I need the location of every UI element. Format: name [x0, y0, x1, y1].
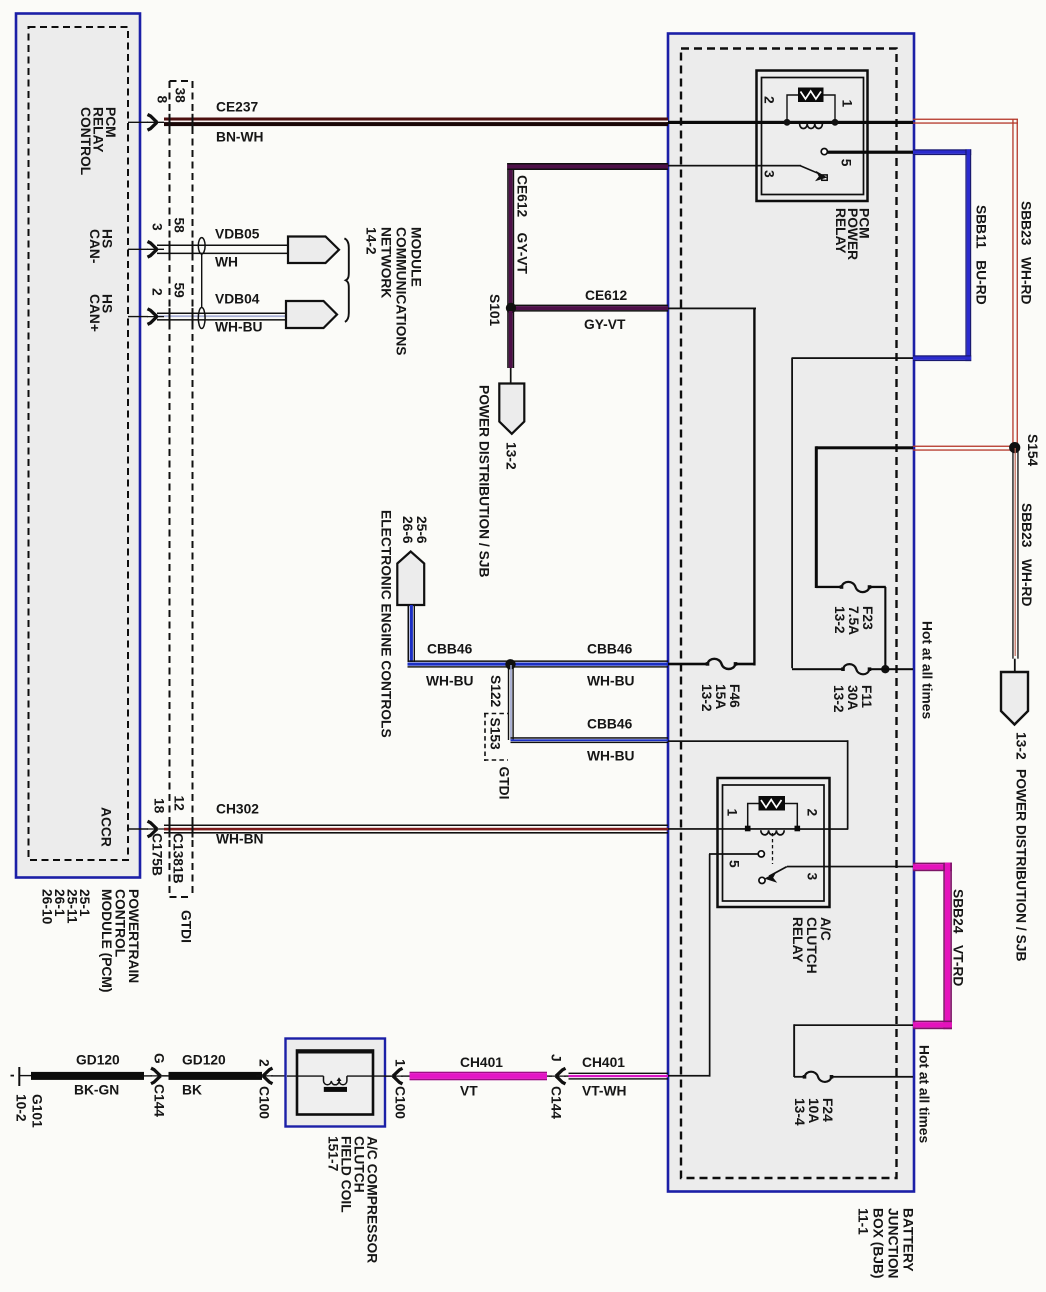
svg-text:ELECTRONIC ENGINE CONTROLS: ELECTRONIC ENGINE CONTROLS — [379, 510, 394, 738]
svg-text:VDB05: VDB05 — [215, 227, 260, 242]
svg-text:25-6: 25-6 — [414, 516, 429, 544]
svg-text:SBB23 WH-RD: SBB23 WH-RD — [1019, 503, 1034, 607]
svg-text:151-7: 151-7 — [326, 1136, 341, 1172]
svg-text:8: 8 — [155, 96, 170, 104]
svg-text:30A: 30A — [845, 685, 860, 710]
svg-text:VDB04: VDB04 — [215, 292, 260, 307]
svg-text:10-2: 10-2 — [14, 1094, 29, 1122]
svg-text:C144: C144 — [152, 1084, 167, 1117]
svg-text:3: 3 — [150, 223, 165, 231]
svg-text:CE612: CE612 — [585, 288, 628, 303]
svg-text:G101: G101 — [30, 1094, 45, 1128]
svg-text:BATTERY: BATTERY — [901, 1208, 916, 1272]
svg-text:C144: C144 — [549, 1086, 564, 1119]
svg-text:A/C: A/C — [818, 917, 833, 941]
svg-text:WH-BU: WH-BU — [426, 674, 474, 689]
svg-text:CONTROL: CONTROL — [78, 107, 93, 175]
svg-text:GD120: GD120 — [76, 1053, 120, 1068]
svg-text:C1381B: C1381B — [171, 833, 186, 884]
svg-text:C100: C100 — [257, 1086, 272, 1119]
svg-text:14-2: 14-2 — [364, 227, 379, 255]
svg-text:BN-WH: BN-WH — [216, 130, 264, 145]
svg-text:S101: S101 — [487, 294, 502, 327]
svg-text:10A: 10A — [806, 1098, 821, 1123]
svg-text:38: 38 — [173, 88, 188, 104]
svg-text:26-6: 26-6 — [400, 516, 415, 544]
svg-text:SBB23 WH-RD: SBB23 WH-RD — [1019, 201, 1034, 305]
svg-text:COMMUNICATIONS: COMMUNICATIONS — [394, 227, 409, 356]
svg-text:WH-BN: WH-BN — [216, 832, 264, 847]
svg-text:1: 1 — [393, 1059, 408, 1067]
svg-text:CH302: CH302 — [216, 802, 259, 817]
svg-text:SBB24 VT-RD: SBB24 VT-RD — [951, 889, 966, 986]
svg-text:15A: 15A — [713, 684, 728, 709]
svg-text:ACCR: ACCR — [99, 807, 114, 847]
svg-text:CE612 GY-VT: CE612 GY-VT — [515, 175, 530, 274]
svg-text:26-10: 26-10 — [40, 889, 55, 925]
svg-text:WH-BU: WH-BU — [587, 749, 635, 764]
svg-text:Hot at all times: Hot at all times — [917, 1045, 932, 1143]
svg-text:2: 2 — [150, 288, 165, 296]
svg-text:C100: C100 — [393, 1086, 408, 1119]
svg-text:CAN+: CAN+ — [87, 294, 102, 332]
svg-text:CBB46: CBB46 — [587, 642, 633, 657]
svg-text:1: 1 — [725, 809, 740, 817]
svg-text:GTDI: GTDI — [179, 910, 194, 943]
svg-text:GD120: GD120 — [182, 1053, 226, 1068]
svg-text:GTDI: GTDI — [497, 767, 512, 800]
svg-text:13-2: 13-2 — [699, 684, 714, 712]
svg-text:F24: F24 — [820, 1098, 835, 1122]
svg-text:2: 2 — [805, 809, 820, 817]
svg-text:5: 5 — [839, 159, 854, 167]
svg-text:BK-GN: BK-GN — [74, 1083, 119, 1098]
svg-text:13-2: 13-2 — [504, 442, 519, 470]
svg-text:3: 3 — [805, 873, 820, 881]
svg-text:S153: S153 — [488, 718, 503, 751]
svg-text:BK: BK — [182, 1083, 202, 1098]
svg-text:CBB46: CBB46 — [427, 642, 473, 657]
svg-text:Hot at all times: Hot at all times — [920, 621, 935, 719]
svg-text:C175B: C175B — [150, 833, 165, 876]
svg-text:CBB46: CBB46 — [587, 717, 633, 732]
svg-text:VT: VT — [460, 1084, 478, 1099]
svg-text:CAN-: CAN- — [87, 229, 102, 264]
svg-text:WH-BU: WH-BU — [215, 320, 263, 335]
svg-text:CLUTCH: CLUTCH — [804, 917, 819, 974]
svg-text:13-4: 13-4 — [792, 1098, 807, 1126]
svg-text:WH: WH — [215, 255, 238, 270]
svg-text:F11: F11 — [859, 685, 874, 708]
svg-text:7.5A: 7.5A — [846, 606, 861, 635]
svg-text:59: 59 — [172, 283, 187, 299]
svg-text:G: G — [152, 1053, 167, 1064]
svg-text:1: 1 — [840, 100, 855, 108]
svg-text:NETWORK: NETWORK — [379, 227, 394, 298]
svg-text:RELAY: RELAY — [790, 917, 805, 963]
svg-text:CH401: CH401 — [460, 1055, 503, 1070]
svg-text:SBB11 BU-RD: SBB11 BU-RD — [974, 205, 989, 305]
svg-text:S122: S122 — [488, 675, 503, 708]
svg-text:CH401: CH401 — [582, 1055, 625, 1070]
svg-text:13-2: 13-2 — [1014, 732, 1029, 760]
svg-text:WH-BU: WH-BU — [587, 674, 635, 689]
svg-text:RELAY: RELAY — [833, 208, 848, 254]
svg-text:CE237: CE237 — [216, 100, 259, 115]
svg-text:MODULE: MODULE — [409, 227, 424, 287]
svg-text:J: J — [549, 1054, 564, 1062]
svg-text:5: 5 — [727, 860, 742, 868]
svg-text:POWER DISTRIBUTION / SJB: POWER DISTRIBUTION / SJB — [477, 385, 492, 577]
svg-text:F46: F46 — [727, 684, 742, 708]
svg-text:2: 2 — [257, 1059, 272, 1067]
svg-text:3: 3 — [762, 170, 777, 178]
svg-text:13-2: 13-2 — [832, 606, 847, 634]
svg-text:BOX (BJB): BOX (BJB) — [871, 1208, 886, 1279]
svg-text:11-1: 11-1 — [856, 1208, 871, 1235]
svg-text:S154: S154 — [1025, 434, 1040, 467]
svg-text:58: 58 — [172, 218, 187, 234]
svg-text:JUNCTION: JUNCTION — [886, 1208, 901, 1279]
svg-text:13-2: 13-2 — [831, 685, 846, 713]
svg-text:POWER DISTRIBUTION / SJB: POWER DISTRIBUTION / SJB — [1014, 769, 1029, 961]
svg-text:GY-VT: GY-VT — [584, 317, 626, 332]
svg-text:MODULE (PCM): MODULE (PCM) — [99, 889, 114, 992]
svg-text:F23: F23 — [860, 606, 875, 630]
svg-text:12: 12 — [172, 796, 187, 812]
svg-text:18: 18 — [152, 798, 167, 814]
svg-text:VT-WH: VT-WH — [582, 1084, 626, 1099]
svg-text:2: 2 — [762, 96, 777, 104]
